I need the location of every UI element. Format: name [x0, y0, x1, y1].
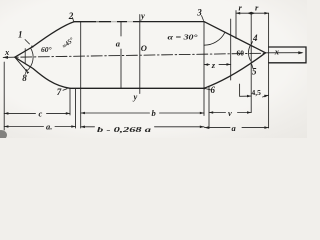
- svg-text:60°: 60°: [41, 45, 52, 54]
- svg-text:4,5: 4,5: [252, 88, 262, 97]
- svg-text:α = 30°: α = 30°: [168, 33, 198, 42]
- svg-text:y: y: [140, 11, 145, 21]
- svg-text:x: x: [4, 47, 10, 57]
- svg-text:4: 4: [252, 33, 258, 43]
- svg-text:2: 2: [68, 11, 74, 21]
- svg-text:5: 5: [252, 67, 257, 77]
- svg-text:1: 1: [18, 30, 23, 40]
- svg-text:O: O: [141, 43, 147, 53]
- svg-text:8: 8: [22, 73, 27, 83]
- svg-text:7: 7: [57, 87, 62, 97]
- svg-text:a: a: [116, 39, 121, 49]
- svg-text:z: z: [211, 60, 216, 70]
- svg-text:a.: a.: [46, 122, 52, 132]
- svg-text:6: 6: [211, 85, 216, 95]
- svg-text:b: b: [152, 108, 156, 118]
- svg-text:y: y: [133, 92, 138, 102]
- svg-text:ν: ν: [228, 108, 232, 118]
- svg-text:x: x: [274, 47, 280, 57]
- svg-text:b - 0,268 a: b - 0,268 a: [97, 125, 151, 134]
- svg-text:c: c: [39, 108, 43, 118]
- svg-text:3: 3: [196, 8, 202, 18]
- svg-text:60: 60: [237, 49, 245, 58]
